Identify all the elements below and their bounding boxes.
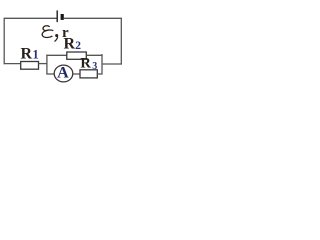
ammeter circle [54,65,73,82]
resistor R2 box [67,52,87,59]
node left junction (parallel block left edge) [46,55,48,74]
svg-text:3: 3 [92,61,97,72]
wire ammeter to R3 [73,73,80,75]
battery long plate (positive) [56,10,58,22]
wire R3 right lead [97,73,102,75]
wire right connector (parallel block to right wire) [102,63,122,65]
svg-text:R: R [64,35,76,52]
label comma after script-E (head) [55,34,58,37]
wire R1 right lead [39,63,48,65]
wire R2 right lead [86,54,102,56]
wire top-left (top-left corner to battery) [4,17,56,19]
label EMF script-E upper curl [43,26,50,31]
label comma after script-E (tail) [55,37,58,42]
wire R1 left lead [4,63,22,65]
wire ammeter left lead [46,73,55,75]
svg-text:R: R [80,56,91,72]
resistor R1 box [21,62,39,70]
svg-text:2: 2 [75,40,81,52]
wire R2 left lead [46,54,67,56]
svg-text:R: R [21,46,33,63]
node right junction (parallel block right edge) [101,54,103,74]
wire top-right (battery to top-right corner) [64,17,122,19]
resistor R3 box [80,70,97,78]
battery short thick plate (negative) [61,14,64,20]
svg-text:1: 1 [33,48,39,62]
wire left side (top-left corner down to R1 lead) [3,18,5,64]
label EMF script-E lower curl [42,30,53,38]
wire right side (top-right corner down to right node) [120,18,122,65]
svg-text:A: A [57,65,69,82]
